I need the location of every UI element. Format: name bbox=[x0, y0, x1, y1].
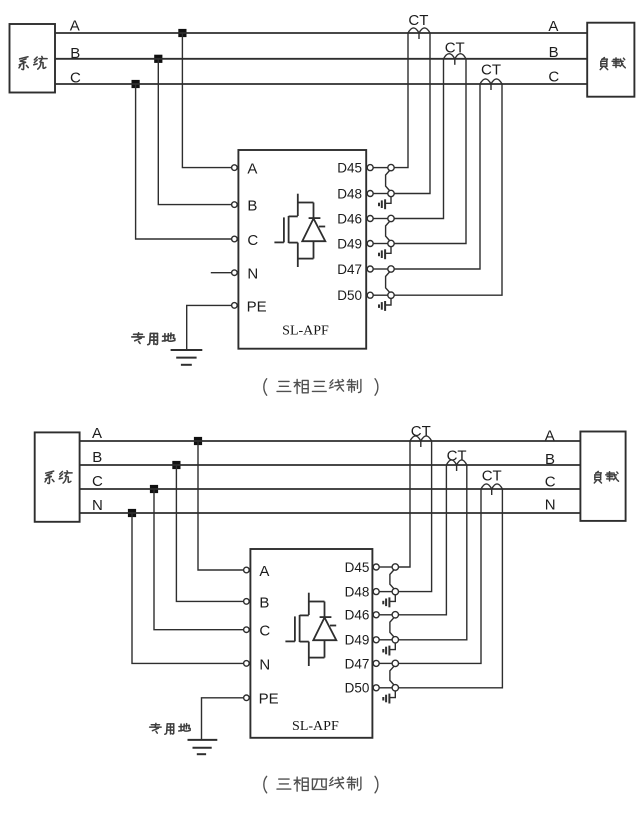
svg-text:N: N bbox=[545, 496, 556, 513]
svg-text:D46: D46 bbox=[345, 608, 370, 623]
svg-text:B: B bbox=[92, 449, 102, 466]
svg-text:A: A bbox=[259, 563, 269, 580]
svg-text:D45: D45 bbox=[345, 560, 370, 575]
svg-text:SL-APF: SL-APF bbox=[282, 324, 329, 339]
svg-text:D48: D48 bbox=[345, 585, 370, 600]
svg-text:D50: D50 bbox=[345, 681, 370, 696]
svg-text:N: N bbox=[259, 656, 270, 673]
svg-text:B: B bbox=[247, 198, 257, 215]
svg-text:D49: D49 bbox=[345, 633, 370, 648]
svg-text:CT: CT bbox=[481, 62, 501, 79]
svg-text:C: C bbox=[247, 232, 258, 249]
svg-text:D47: D47 bbox=[337, 262, 362, 277]
svg-text:D45: D45 bbox=[337, 161, 362, 176]
svg-text:A: A bbox=[247, 161, 257, 178]
svg-text:D49: D49 bbox=[337, 236, 362, 251]
svg-text:CT: CT bbox=[447, 448, 467, 465]
svg-text:N: N bbox=[92, 497, 103, 514]
svg-text:A: A bbox=[70, 18, 80, 35]
svg-text:D47: D47 bbox=[345, 656, 370, 671]
svg-text:CT: CT bbox=[411, 423, 431, 440]
svg-text:C: C bbox=[259, 623, 270, 640]
svg-text:A: A bbox=[92, 425, 102, 442]
svg-text:B: B bbox=[259, 594, 269, 611]
svg-text:CT: CT bbox=[482, 468, 502, 485]
svg-text:CT: CT bbox=[408, 12, 428, 29]
svg-text:D50: D50 bbox=[337, 288, 362, 303]
svg-text:N: N bbox=[247, 265, 258, 282]
svg-text:C: C bbox=[92, 473, 103, 490]
svg-text:C: C bbox=[545, 473, 556, 490]
svg-text:PE: PE bbox=[259, 691, 279, 708]
svg-text:PE: PE bbox=[247, 299, 267, 316]
svg-text:D46: D46 bbox=[337, 211, 362, 226]
svg-text:SL-APF: SL-APF bbox=[292, 719, 339, 734]
svg-text:D48: D48 bbox=[337, 186, 362, 201]
